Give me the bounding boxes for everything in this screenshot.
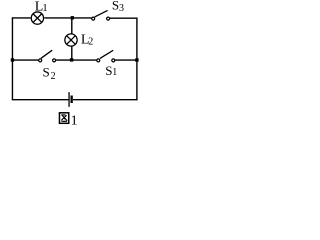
svg-text:1: 1	[42, 2, 48, 14]
svg-text:1: 1	[112, 67, 117, 78]
svg-text:2: 2	[51, 71, 56, 82]
svg-text:2: 2	[88, 36, 93, 47]
svg-text:1: 1	[71, 113, 78, 128]
svg-text:S: S	[43, 65, 50, 80]
svg-text:3: 3	[119, 3, 124, 14]
